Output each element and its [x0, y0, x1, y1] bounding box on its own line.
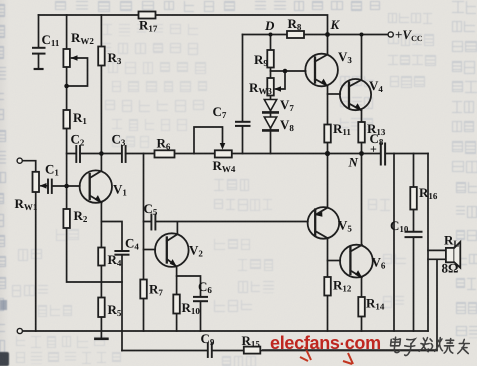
- svg-text:R3: R3: [108, 50, 122, 66]
- wire V6 emitter R14: [361, 278, 363, 331]
- wire V3 base: [271, 70, 306, 72]
- svg-text:RW2: RW2: [71, 30, 94, 46]
- transistor V3: [305, 54, 338, 87]
- svg-text:D: D: [264, 18, 275, 33]
- resistor R4: [98, 248, 105, 266]
- resistor R12: [324, 277, 331, 296]
- ground bar R5: [95, 337, 107, 340]
- wire mid signal line: [67, 153, 428, 155]
- transistor V2: [155, 233, 189, 267]
- svg-text:RL: RL: [444, 233, 459, 249]
- svg-text:R6: R6: [157, 136, 171, 152]
- wire R1 R2 column: [67, 86, 122, 282]
- svg-text:+: +: [370, 142, 377, 156]
- node V4 collector rail: [360, 33, 364, 37]
- wire C6 branch: [177, 276, 201, 331]
- svg-text:K: K: [330, 17, 341, 32]
- wire V4 base: [328, 93, 341, 95]
- terminal input: [17, 158, 22, 163]
- transistor V5: [308, 207, 340, 239]
- wire R5 ground stub: [100, 331, 102, 338]
- svg-text:RW1: RW1: [15, 196, 38, 212]
- resistor R8: [287, 31, 304, 38]
- svg-text:R11: R11: [333, 121, 351, 137]
- resistor R1: [63, 110, 70, 129]
- wire R9 diode column: [270, 35, 272, 154]
- resistor R11: [324, 125, 331, 143]
- speaker RL: [446, 242, 460, 268]
- wire ground rail: [20, 330, 428, 332]
- wire V1 collector: [100, 154, 102, 171]
- potentiometer RW1: [33, 172, 47, 192]
- svg-text:C5: C5: [144, 201, 158, 217]
- svg-text:V3: V3: [338, 49, 352, 65]
- svg-text:R8: R8: [288, 16, 302, 32]
- svg-text:V4: V4: [369, 78, 383, 94]
- svg-text:R5: R5: [108, 302, 122, 318]
- node V1 base: [64, 184, 69, 189]
- wire V4 collector: [361, 35, 363, 80]
- svg-text:C10: C10: [390, 218, 409, 234]
- wire R16 C10 column: [413, 154, 415, 332]
- capacitor C2: [76, 146, 80, 162]
- svg-text:R15: R15: [242, 333, 261, 349]
- svg-text:V1: V1: [113, 182, 127, 198]
- resistor R6: [155, 150, 175, 157]
- wire feedback line: [122, 259, 437, 350]
- wire V1 emitter column: [100, 203, 102, 331]
- resistor R17: [139, 12, 156, 19]
- wire input to RW1: [22, 161, 35, 172]
- resistor R9: [267, 50, 274, 68]
- wire RW1 bottom column: [35, 192, 37, 331]
- resistor R2: [63, 209, 70, 228]
- node RW2 bottom: [64, 84, 69, 89]
- svg-text:C9: C9: [201, 331, 215, 347]
- terminal ground left: [17, 328, 22, 333]
- wire V2 emitter column: [176, 267, 178, 331]
- diode V7: [263, 100, 277, 113]
- transistor V1: [80, 170, 112, 203]
- svg-text:RW4: RW4: [213, 158, 236, 174]
- resistor R10: [173, 295, 180, 314]
- node K: [325, 32, 330, 37]
- wire V2 base column: [143, 154, 145, 332]
- wire V2 base stub: [144, 249, 156, 251]
- svg-text:V5: V5: [338, 218, 352, 234]
- resistor R7: [140, 280, 147, 299]
- wire V1 base: [52, 185, 80, 187]
- wire V6 base: [328, 260, 341, 262]
- capacitor C11: [33, 48, 45, 69]
- svg-text:R1: R1: [73, 110, 87, 126]
- svg-text:C4: C4: [125, 236, 139, 252]
- capacitor C4: [115, 251, 128, 255]
- wire RW4 wiper loop: [194, 127, 223, 154]
- svg-text:C1: C1: [45, 162, 59, 178]
- capacitor C7: [236, 122, 250, 126]
- svg-text:8Ω: 8Ω: [442, 261, 459, 276]
- watermark elecfans.com: [270, 333, 381, 354]
- node V1 collector: [99, 151, 104, 156]
- svg-text:V7: V7: [280, 97, 294, 113]
- wire output return column: [393, 154, 395, 332]
- resistor R16: [410, 187, 417, 210]
- node R11 bottom: [325, 151, 330, 156]
- svg-text:C2: C2: [71, 132, 85, 148]
- wire speaker column: [427, 154, 429, 332]
- resistor R15: [244, 347, 260, 354]
- svg-text:N: N: [348, 155, 359, 170]
- wire N column to V6 collector: [361, 154, 363, 245]
- capacitor C8: [381, 144, 385, 165]
- wire C7 column: [242, 35, 244, 154]
- svg-text:R7: R7: [149, 282, 163, 298]
- svg-text:V8: V8: [280, 117, 294, 133]
- node N: [359, 151, 364, 156]
- wire R3 column: [100, 15, 102, 154]
- svg-text:C11: C11: [42, 32, 60, 48]
- wire RW3 wiper link: [276, 71, 285, 89]
- transistor V4: [340, 79, 371, 111]
- diode V8: [263, 117, 277, 130]
- transistor V6: [340, 245, 373, 278]
- svg-text:+VCC: +VCC: [395, 27, 423, 43]
- potentiometer RW4: [215, 143, 232, 158]
- svg-text:R9: R9: [254, 52, 268, 68]
- wire V4 emitter R13: [361, 111, 363, 154]
- watermark chinese dianzifashaoyou: [387, 336, 471, 362]
- node RW3 wiper: [283, 69, 288, 74]
- svg-text:R12: R12: [333, 278, 352, 294]
- wire C4 branch: [101, 222, 122, 351]
- wire C11 column: [38, 15, 40, 69]
- svg-text:R14: R14: [366, 296, 385, 312]
- resistor R14: [358, 297, 365, 317]
- capacitor C10: [406, 232, 422, 237]
- wire V3 emitter to N: [327, 86, 329, 154]
- capacitor C6: [194, 297, 207, 301]
- svg-text:C3: C3: [112, 132, 126, 148]
- svg-text:V2: V2: [189, 243, 203, 259]
- corner smudge bottom-left: [0, 352, 9, 366]
- svg-text:C7: C7: [213, 104, 227, 120]
- svg-text:R10: R10: [182, 300, 201, 316]
- wire V5 collector R12: [327, 238, 329, 331]
- svg-text:C6: C6: [198, 279, 212, 295]
- wire RW2 wiper link: [67, 58, 88, 86]
- capacitor C5: [151, 215, 155, 230]
- wire top rail: [39, 15, 328, 54]
- wire speaker stubs: [428, 250, 446, 259]
- potentiometer RW2: [63, 49, 77, 67]
- resistor R5: [98, 298, 105, 318]
- svg-text:V6: V6: [372, 255, 386, 271]
- potentiometer RW3: [267, 78, 281, 96]
- svg-text:R2: R2: [74, 208, 88, 224]
- capacitor C1: [48, 180, 52, 194]
- node D: [269, 33, 273, 37]
- resistor R3: [98, 47, 105, 66]
- wire V5 emitter: [327, 154, 329, 208]
- resistor R13: [358, 122, 365, 143]
- svg-text:R17: R17: [139, 18, 158, 34]
- wire Vcc rail D-K: [243, 34, 389, 36]
- terminal +Vcc: [388, 32, 393, 37]
- capacitor C9: [208, 344, 212, 358]
- wire RW2 column: [66, 15, 68, 86]
- capacitor C3: [122, 146, 126, 162]
- wire RW1 wiper to C1: [41, 185, 48, 187]
- wire V2 collector line: [144, 222, 308, 234]
